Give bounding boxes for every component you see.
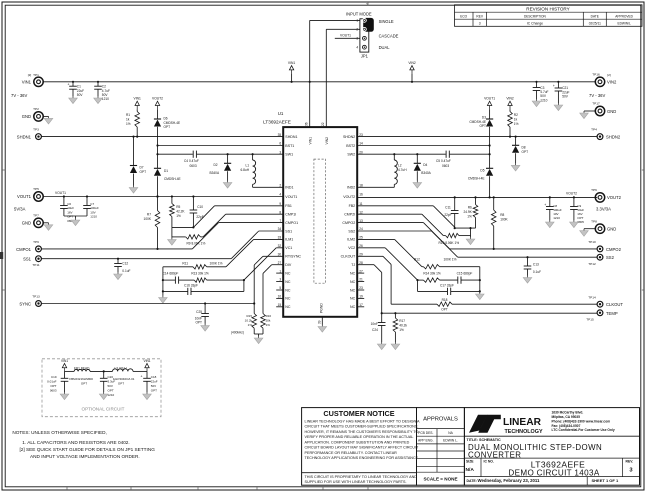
test point TP15 TEMP xyxy=(586,310,618,322)
svg-text:OPT: OPT xyxy=(81,381,87,385)
svg-text:19: 19 xyxy=(359,295,363,299)
svg-text:100K: 100K xyxy=(500,217,508,221)
svg-text:C5 0.47uF: C5 0.47uF xyxy=(436,159,451,163)
svg-text:SS1: SS1 xyxy=(23,257,32,262)
pin 23 SHDN2 right xyxy=(343,133,363,139)
svg-text:PCB DES.: PCB DES. xyxy=(418,431,433,435)
wire chain D6 to D1 xyxy=(157,146,159,169)
svg-text:CMDSH-4E: CMDSH-4E xyxy=(164,121,181,125)
svg-text:REV.: REV. xyxy=(626,459,634,463)
svg-text:NC: NC xyxy=(285,297,291,301)
svg-text:SW2: SW2 xyxy=(347,153,355,157)
title block main box xyxy=(464,408,639,486)
Linear Technology LT logo xyxy=(469,415,543,435)
resistor R15 xyxy=(245,304,257,335)
svg-text:TP5: TP5 xyxy=(33,187,39,191)
capacitor C24 xyxy=(371,313,386,342)
node C6 xyxy=(63,195,65,197)
capacitor C19 xyxy=(47,371,68,392)
svg-text:NC: NC xyxy=(285,280,291,284)
wire JP1 pin3 VOUT1 xyxy=(335,34,360,39)
node D8 SHDN2 xyxy=(515,136,517,138)
net VIN1 optional right xyxy=(143,359,150,372)
svg-text:R17: R17 xyxy=(399,319,405,323)
capacitor C11 xyxy=(444,197,458,228)
wire chain D3 to D5 xyxy=(489,146,491,169)
ground under C2 xyxy=(94,96,103,104)
wire optional circuit top rail xyxy=(65,370,148,372)
ground under D8 xyxy=(511,163,520,171)
svg-text:ECO: ECO xyxy=(460,14,467,18)
svg-text:CLKOUT: CLKOUT xyxy=(341,255,356,259)
svg-text:JP1: JP1 xyxy=(361,54,369,59)
svg-text:LTC Confidential-For Customer: LTC Confidential-For Customer Use Only xyxy=(552,428,615,432)
node C12 SS1 xyxy=(117,258,119,260)
net VIN1 optional left xyxy=(61,359,68,372)
svg-text:1%: 1% xyxy=(126,122,131,126)
svg-text:27: 27 xyxy=(278,261,282,265)
svg-text:Wednesday, February 23, 2011: Wednesday, February 23, 2011 xyxy=(478,478,541,483)
svg-text:VIN2: VIN2 xyxy=(325,137,329,145)
svg-text:VERIFY PROPER AND RELIABLE OPE: VERIFY PROPER AND RELIABLE OPERATION IN … xyxy=(305,435,414,439)
test point TP7 GND xyxy=(22,214,49,228)
svg-text:8: 8 xyxy=(279,210,281,214)
wire BST1 xyxy=(158,145,284,147)
svg-text:C17 33pF: C17 33pF xyxy=(440,284,454,288)
svg-text:VIN2: VIN2 xyxy=(408,61,415,65)
pin 7 CMPO1 left xyxy=(279,219,298,225)
optional circuit dashed box xyxy=(42,359,161,417)
svg-text:OPT: OPT xyxy=(108,388,114,392)
svg-text:TP11: TP11 xyxy=(32,263,39,267)
svg-text:CMPO2: CMPO2 xyxy=(342,221,355,225)
pin 24 SS2 right xyxy=(348,227,363,233)
svg-text:Milpitas, CA 95035: Milpitas, CA 95035 xyxy=(552,415,581,419)
svg-text:D5: D5 xyxy=(480,169,484,173)
ground at TP7 xyxy=(44,223,53,231)
svg-text:IND2: IND2 xyxy=(347,186,355,190)
svg-text:7: 7 xyxy=(279,219,281,223)
node R7 VOUT1 xyxy=(156,195,158,197)
capacitor C6 xyxy=(60,197,74,223)
svg-text:1: 1 xyxy=(279,269,281,273)
wire SHDN2 xyxy=(357,136,597,138)
title text xyxy=(467,438,603,459)
svg-text:1%: 1% xyxy=(266,323,271,327)
svg-text:2: 2 xyxy=(356,28,358,32)
svg-text:CMPO2: CMPO2 xyxy=(606,247,622,252)
capacitor C4 series xyxy=(184,151,199,168)
capacitor C1 xyxy=(68,82,85,97)
svg-text:NC: NC xyxy=(350,288,356,292)
net label VIN2 center xyxy=(408,61,415,83)
test point TP12 SS2 xyxy=(588,254,614,266)
svg-text:NA: NA xyxy=(448,431,453,435)
wire SS2 xyxy=(357,231,597,257)
svg-text:DUAL: DUAL xyxy=(379,45,391,50)
wire R5 C10 bottom node xyxy=(172,226,195,237)
capacitor C12 xyxy=(114,259,130,273)
resistor R14 xyxy=(418,271,458,282)
svg-text:100K: 100K xyxy=(144,217,152,221)
svg-text:R8: R8 xyxy=(500,213,504,217)
svg-text:3.3uF: 3.3uF xyxy=(108,380,116,384)
svg-text:NC: NC xyxy=(350,280,356,284)
svg-text:10: 10 xyxy=(278,295,282,299)
svg-text:APPLICATION. COMPONENT SUBSTI: APPLICATION. COMPONENT SUBSTITUTION AND … xyxy=(305,440,410,444)
pin 18 IND2 right xyxy=(347,184,363,190)
pin 3 SW1 left xyxy=(279,150,293,156)
pin 11 FB2 right xyxy=(349,202,363,208)
svg-text:24.9K: 24.9K xyxy=(463,210,472,214)
test point TP4 SHDN2 xyxy=(591,128,621,140)
svg-text:TJ: TJ xyxy=(351,263,355,267)
ground under C24 xyxy=(377,342,386,350)
svg-text:SUPPLIED FOR USE WITH LINEAR T: SUPPLIED FOR USE WITH LINEAR TECHNOLOGY … xyxy=(305,480,407,484)
svg-text:CASCADE: CASCADE xyxy=(379,34,399,39)
capacitor C7 xyxy=(83,197,99,219)
node R1 SHDN1 xyxy=(136,136,138,138)
svg-text:23: 23 xyxy=(359,286,363,290)
test point TP3 SHDN1 xyxy=(17,128,42,140)
resistor R8 xyxy=(491,197,508,249)
pin 4 VOUT1 left xyxy=(279,193,297,199)
svg-text:SYNC: SYNC xyxy=(19,301,31,306)
resistor R12 xyxy=(414,257,480,269)
svg-text:NC: NC xyxy=(285,271,291,275)
svg-text:OPT: OPT xyxy=(441,308,448,312)
svg-text:SHDN1: SHDN1 xyxy=(17,134,32,139)
ground under C9 xyxy=(570,220,579,228)
svg-text:CIRCUIT BOARD LAYOUT MAY SIGNI: CIRCUIT BOARD LAYOUT MAY SIGNIFICANTLY A… xyxy=(305,446,419,450)
svg-text:IND1: IND1 xyxy=(285,186,293,190)
svg-text:VIN2: VIN2 xyxy=(506,97,513,101)
svg-text:D1: D1 xyxy=(164,169,168,173)
svg-text:DESCRIPTION: DESCRIPTION xyxy=(524,14,546,18)
svg-text:VOUT2: VOUT2 xyxy=(152,97,163,101)
svg-text:ILM2: ILM2 xyxy=(347,238,355,242)
diode D7 xyxy=(130,137,146,186)
svg-text:32: 32 xyxy=(278,244,282,248)
inductor L1 xyxy=(240,154,255,187)
svg-text:CLKOUT: CLKOUT xyxy=(606,302,623,307)
wire R15 R16 join xyxy=(254,334,263,336)
svg-text:OPT: OPT xyxy=(522,150,529,154)
svg-text:DATE:: DATE: xyxy=(467,479,477,483)
wire IND2 xyxy=(357,186,394,188)
capacitor C10 xyxy=(190,197,204,228)
wire CMPO2 xyxy=(357,223,597,249)
svg-text:3.3V/3A: 3.3V/3A xyxy=(596,207,611,212)
svg-text:50V: 50V xyxy=(108,384,113,388)
svg-text:R2: R2 xyxy=(514,113,518,117)
svg-text:SHDN2: SHDN2 xyxy=(606,134,621,139)
svg-text:SS2: SS2 xyxy=(348,229,355,233)
ground under D7 xyxy=(129,186,138,194)
pin 39 PGND stub xyxy=(318,317,323,325)
svg-text:CMP1I: CMP1I xyxy=(285,213,296,217)
svg-text:1210: 1210 xyxy=(90,215,97,219)
svg-text:TP2: TP2 xyxy=(33,107,39,111)
svg-text:CMP2I: CMP2I xyxy=(344,213,355,217)
svg-text:BST1: BST1 xyxy=(285,144,294,148)
node chain SW1 xyxy=(156,153,158,155)
svg-text:TITLE: SCHEMATIC: TITLE: SCHEMATIC xyxy=(467,438,501,442)
svg-text:VC2: VC2 xyxy=(348,246,355,250)
pin 6 BST1 left xyxy=(279,142,294,148)
pin 15 NC left xyxy=(276,303,291,309)
svg-text:GND: GND xyxy=(607,227,616,232)
svg-text:APP ENG.: APP ENG. xyxy=(418,439,434,443)
ground under R10 xyxy=(466,237,475,245)
pin 27 DIV left xyxy=(278,261,292,267)
company address block xyxy=(552,411,615,433)
test point TP5 VOUT1 xyxy=(14,187,43,211)
svg-text:17: 17 xyxy=(359,303,363,307)
svg-text:DIV: DIV xyxy=(285,263,292,267)
pin 13 CMPO2 right xyxy=(342,219,363,225)
resistor R2 xyxy=(508,109,519,136)
svg-text:D7: D7 xyxy=(140,166,144,170)
svg-text:DEMO CIRCUIT 1403A: DEMO CIRCUIT 1403A xyxy=(508,469,599,478)
svg-text:SW1: SW1 xyxy=(285,153,293,157)
ground under R5 xyxy=(168,238,177,246)
pin 1 NC left xyxy=(276,269,291,275)
pin 34 SS1 left xyxy=(278,227,292,233)
svg-text:C12: C12 xyxy=(122,261,128,265)
svg-text:SS1: SS1 xyxy=(285,229,292,233)
ground under C13 xyxy=(523,276,532,284)
svg-text:02/25/11: 02/25/11 xyxy=(589,21,601,25)
svg-text:+: + xyxy=(553,84,555,88)
pin 8 CMP1I left xyxy=(279,210,296,216)
svg-text:0603: 0603 xyxy=(190,164,197,168)
svg-text:1%: 1% xyxy=(514,122,519,126)
svg-text:22uF: 22uF xyxy=(151,380,158,384)
svg-text:6.8uH: 6.8uH xyxy=(240,168,249,172)
svg-text:30: 30 xyxy=(278,253,282,257)
svg-text:(400kHz): (400kHz) xyxy=(231,331,244,335)
ground under C18 xyxy=(143,392,152,400)
svg-text:VC1: VC1 xyxy=(285,246,292,250)
svg-text:NC: NC xyxy=(285,288,291,292)
svg-text:VIN1: VIN1 xyxy=(22,79,32,84)
svg-text:TP6: TP6 xyxy=(591,188,597,192)
svg-text:50V: 50V xyxy=(77,93,84,97)
svg-text:50V: 50V xyxy=(562,95,569,99)
svg-text:4: 4 xyxy=(279,193,281,197)
svg-text:1%: 1% xyxy=(248,323,253,327)
diode D3 xyxy=(469,115,493,145)
svg-text:EDWIN/L: EDWIN/L xyxy=(617,21,631,25)
wire C11 R6 bottom node xyxy=(454,227,476,229)
svg-text:PGND: PGND xyxy=(320,303,324,313)
wire ILM2 diagonal xyxy=(357,239,422,266)
pin 2 IND1 left xyxy=(279,184,293,190)
svg-text:100K 1%: 100K 1% xyxy=(444,257,457,261)
svg-text:DATE: DATE xyxy=(591,14,599,18)
svg-text:OPT: OPT xyxy=(151,388,157,392)
node R5 VOUT1 xyxy=(171,195,173,197)
svg-text:LINEAR: LINEAR xyxy=(503,417,542,428)
node C9 VOUT2 xyxy=(573,196,575,198)
ground at TP2 xyxy=(44,116,53,124)
test point TP13 SYNC xyxy=(19,295,41,307)
pin 26 VC2 right xyxy=(348,244,363,250)
svg-text:AND INPUT VOLTAGE IMPLEMENTATI: AND INPUT VOLTAGE IMPLEMENTATION ORDER. xyxy=(30,454,140,459)
svg-text:TP9: TP9 xyxy=(33,240,39,244)
svg-text:THIS CIRCUIT IS PROPRIETARY TO: THIS CIRCUIT IS PROPRIETARY TO LINEAR TE… xyxy=(305,475,418,479)
svg-text:2: 2 xyxy=(279,184,281,188)
node C13 SS2 xyxy=(526,256,528,258)
wire FB1 with diagonal xyxy=(193,206,283,228)
svg-text:EDWIN L.: EDWIN L. xyxy=(443,439,458,443)
node R6 VOUT2 xyxy=(474,196,476,198)
svg-text:+: + xyxy=(68,82,70,86)
node L1 SW1 xyxy=(252,153,254,155)
svg-text:5: 5 xyxy=(279,286,281,290)
node C7 xyxy=(86,195,88,197)
ground under C21 xyxy=(554,103,563,111)
svg-text:CIRCUIT THAT MEETS CUSTOMER-SU: CIRCUIT THAT MEETS CUSTOMER-SUPPLIED SPE… xyxy=(305,425,419,429)
node C15 rail xyxy=(416,279,418,281)
svg-text:D2: D2 xyxy=(214,163,218,167)
test point TP10 CMPO2 xyxy=(588,240,621,252)
node L2 SW2 xyxy=(393,153,395,155)
svg-text:L2: L2 xyxy=(398,163,402,167)
wire JP1 pin2 to VIN2 pin22 xyxy=(326,29,360,127)
svg-text:VIN1: VIN1 xyxy=(143,359,150,363)
svg-text:B340A: B340A xyxy=(421,171,431,175)
svg-text:VIN1: VIN1 xyxy=(134,97,141,101)
test point TP16 VIN2 xyxy=(589,73,617,98)
svg-text:GND: GND xyxy=(22,221,31,226)
svg-text:R15: R15 xyxy=(246,314,252,318)
svg-text:3: 3 xyxy=(479,21,481,25)
resistor R7 xyxy=(144,197,160,249)
svg-text:SHDN1: SHDN1 xyxy=(285,135,297,139)
svg-text:Fax: (408)434-0507: Fax: (408)434-0507 xyxy=(552,424,581,428)
svg-text:1k: 1k xyxy=(126,117,130,121)
svg-text:LT3692AEFE: LT3692AEFE xyxy=(263,120,291,125)
svg-text:1210: 1210 xyxy=(102,97,109,101)
resistor R18 series xyxy=(437,298,452,312)
ground under PGND xyxy=(318,325,327,333)
node D1 VOUT1 xyxy=(156,195,158,197)
svg-text:1210: 1210 xyxy=(108,393,115,397)
net label VIN1 center xyxy=(288,61,295,83)
diode D2 xyxy=(210,154,232,180)
svg-text:40.2k: 40.2k xyxy=(399,323,407,327)
svg-text:3: 3 xyxy=(279,150,281,154)
pin 25 ILM2 right xyxy=(347,236,363,242)
svg-text:R11: R11 xyxy=(182,261,188,265)
resistor R1 xyxy=(126,109,140,136)
svg-text:CMPO1: CMPO1 xyxy=(285,221,298,225)
svg-text:22pF: 22pF xyxy=(444,213,451,217)
svg-text:SHDN2: SHDN2 xyxy=(343,135,355,139)
svg-text:4: 4 xyxy=(356,45,358,49)
svg-text:NC: NC xyxy=(285,305,291,309)
svg-text:C15 680pF: C15 680pF xyxy=(457,271,473,275)
ground under C1 xyxy=(69,96,78,104)
svg-text:22: 22 xyxy=(321,122,325,126)
pin 16 VOUT2 right xyxy=(343,193,363,199)
svg-text:SS2: SS2 xyxy=(606,255,615,260)
wire TJ xyxy=(357,265,382,314)
pin 19 NC right xyxy=(350,295,364,301)
svg-text:NC: NC xyxy=(350,305,356,309)
svg-text:33: 33 xyxy=(278,236,282,240)
capacitor C8 xyxy=(544,197,562,220)
wire VIN bus xyxy=(43,81,595,83)
pin 36 VIN1 top xyxy=(305,122,313,144)
svg-text:21: 21 xyxy=(359,278,363,282)
svg-text:APPROVED: APPROVED xyxy=(615,14,633,18)
customer notice box xyxy=(302,408,420,486)
wire FB2 diagonal xyxy=(357,206,455,227)
pin 23 NC right xyxy=(350,286,364,292)
net label VOUT1 at D3 xyxy=(484,97,495,119)
svg-text:35: 35 xyxy=(278,133,282,137)
capacitor C16 xyxy=(163,280,244,295)
svg-text:+: + xyxy=(141,374,143,378)
svg-text:TP13: TP13 xyxy=(32,295,40,299)
pin 3 NC left xyxy=(276,278,291,284)
notes text xyxy=(12,430,155,459)
svg-text:VOUT1: VOUT1 xyxy=(55,191,66,195)
svg-text:U1: U1 xyxy=(278,111,284,116)
svg-text:SCALE = NONE: SCALE = NONE xyxy=(423,476,457,481)
svg-text:CONVERTER: CONVERTER xyxy=(468,450,521,459)
svg-text:VOUT1: VOUT1 xyxy=(285,195,297,199)
capacitor C5 series xyxy=(436,151,451,168)
svg-text:R18: R18 xyxy=(442,298,448,302)
capacitor C17 xyxy=(418,280,480,295)
ground under comp network xyxy=(159,296,168,304)
svg-text:R1: R1 xyxy=(126,113,130,117)
svg-text:42.2K: 42.2K xyxy=(176,209,185,213)
pin 20 SW2 right xyxy=(347,150,363,156)
node C21 VIN bus xyxy=(557,81,559,83)
svg-text:R6: R6 xyxy=(468,206,472,210)
svg-text:+: + xyxy=(544,203,546,207)
svg-text:ILM1: ILM1 xyxy=(285,238,293,242)
node D5 VOUT2 xyxy=(489,196,491,198)
svg-text:OPT: OPT xyxy=(50,384,56,388)
thermal pad dashed outline xyxy=(314,159,326,313)
svg-text:TP10: TP10 xyxy=(588,240,596,244)
svg-text:0.1uF: 0.1uF xyxy=(533,270,541,274)
right comp vertical xyxy=(479,267,481,293)
svg-text:OPTIONAL CIRCUIT: OPTIONAL CIRCUIT xyxy=(82,407,125,412)
svg-text:APPROVALS: APPROVALS xyxy=(423,417,458,423)
ground under right comp network xyxy=(476,292,485,300)
resistor R9 xyxy=(172,235,206,246)
capacitor C15 xyxy=(457,271,480,283)
wire SW1 xyxy=(158,153,284,155)
svg-text:NC: NC xyxy=(350,271,356,275)
wire JP1 pin1 to VIN1 pin36 xyxy=(309,20,360,127)
node C10 VOUT1 xyxy=(192,195,194,197)
svg-text:1k: 1k xyxy=(514,117,518,121)
svg-text:C20: C20 xyxy=(108,375,114,379)
resistor R6 xyxy=(463,197,477,228)
svg-text:GND: GND xyxy=(22,114,31,119)
test point TP1 VIN1 xyxy=(11,73,43,98)
resistor R16 xyxy=(261,314,272,335)
svg-text:B340A: B340A xyxy=(210,171,220,175)
